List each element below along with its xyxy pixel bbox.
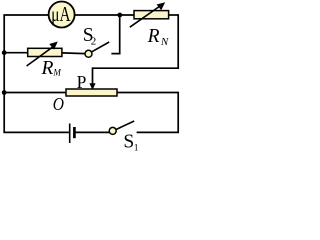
node junction left-lower (dot) <box>2 90 7 95</box>
potentiometer P body <box>66 89 117 96</box>
wire: left to RM <box>4 52 28 54</box>
wire: wiper vertical with arrowhead P <box>92 67 94 84</box>
svg-text:N: N <box>160 36 169 48</box>
wire: RN to top-right corner <box>169 14 179 16</box>
switch S2 fixed contact (vertical from node + foot) <box>111 15 119 54</box>
svg-text:O: O <box>53 94 65 114</box>
resistor RM arrow <box>27 46 55 66</box>
wire: top-left horizontal to ammeter <box>3 14 49 16</box>
wire: right vertical upper <box>177 14 179 69</box>
wire: wiper horizontal <box>93 67 180 69</box>
ammeter U1 (microammeter) <box>49 2 75 28</box>
svg-text:2: 2 <box>91 36 97 48</box>
switch S2 blade <box>92 42 110 52</box>
svg-text:μA: μA <box>51 2 71 26</box>
wire: left vertical bus <box>3 15 5 132</box>
battery cell short thick plate <box>73 127 76 138</box>
svg-text:R: R <box>147 26 160 47</box>
wire: right vertical lower <box>177 92 179 133</box>
node junction top (dot) <box>117 13 122 18</box>
svg-text:M: M <box>52 68 61 78</box>
wire: RM to switch S2 <box>62 52 85 55</box>
resistor RN body <box>134 11 169 19</box>
wire: ammeter to node junction and RN <box>75 14 135 16</box>
wire: bottom-left to battery <box>3 131 69 133</box>
switch S1 blade <box>116 121 134 130</box>
svg-text:S: S <box>123 131 134 152</box>
svg-text:R: R <box>41 58 54 79</box>
node junction left-middle (dot) <box>2 50 7 55</box>
wire: potentiometer to right <box>117 92 178 94</box>
wire: battery to switch S1 <box>76 131 110 133</box>
resistor RN arrow <box>130 5 162 27</box>
resistor RM body <box>28 48 62 56</box>
switch S1 pivot circle <box>109 127 116 134</box>
switch S2 pivot circle <box>85 50 92 57</box>
battery cell long plate <box>69 124 71 144</box>
svg-text:1: 1 <box>134 144 139 154</box>
wire: bottom-right to switch S1 <box>137 131 179 133</box>
wire: left to potentiometer <box>4 92 66 94</box>
